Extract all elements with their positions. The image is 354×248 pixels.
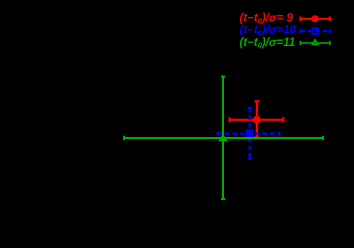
wire green horizontal errorbar (124, 137, 323, 139)
wire red top cap (255, 100, 260, 102)
legend entry 3 marker triangle (312, 40, 318, 45)
marker blue open square (247, 130, 253, 136)
wire red left cap (229, 117, 231, 122)
wire blue vertical errorbar dashed (249, 108, 251, 159)
wire green top cap (221, 76, 225, 78)
wire red bottom cap (255, 136, 260, 138)
wire red horizontal errorbar (230, 119, 284, 121)
legend entry 1 marker circle (313, 16, 318, 21)
wire green vertical errorbar (222, 77, 224, 200)
wire red right cap (282, 117, 284, 122)
legend entry 2 sample line blue dashed (300, 29, 329, 33)
legend entry 3 sample line green (300, 41, 329, 45)
wire blue right cap (278, 132, 280, 136)
wire green bottom cap (221, 198, 225, 200)
svg-text:(t−t0)/σ= 9: (t−t0)/σ= 9 (240, 12, 294, 25)
svg-text:(t−t0)/σ=11: (t−t0)/σ=11 (240, 37, 296, 50)
wire blue bottom cap (248, 158, 252, 160)
errorbar cross red series (t-t0)/sigma=9 (230, 101, 284, 137)
marker green open triangle (219, 135, 226, 141)
wire red vertical errorbar (256, 101, 258, 137)
legend entry 2 marker square (312, 28, 318, 34)
marker red open circle (254, 117, 259, 122)
svg-text:(t−t0)/σ=10: (t−t0)/σ=10 (240, 25, 297, 38)
errorbar cross blue series (t-t0)/sigma=10 (218, 108, 280, 159)
wire blue top cap (248, 107, 252, 109)
errorbar cross green series (t-t0)/sigma=11 (124, 77, 323, 200)
wire green left cap (123, 136, 125, 140)
wire blue horizontal errorbar dashed (218, 133, 280, 135)
wire green right cap (322, 136, 324, 140)
wire blue left cap (217, 132, 219, 136)
legend entry 1 sample line red (300, 17, 329, 22)
